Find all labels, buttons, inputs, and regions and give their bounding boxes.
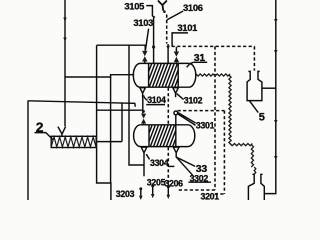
- svg-text:3205: 3205: [147, 177, 166, 187]
- svg-text:3203: 3203: [116, 189, 135, 199]
- svg-text:3304: 3304: [150, 158, 169, 168]
- svg-text:3206: 3206: [164, 178, 183, 188]
- svg-text:3105: 3105: [124, 1, 144, 12]
- svg-text:3201: 3201: [201, 192, 220, 200]
- svg-text:31: 31: [194, 52, 206, 64]
- svg-text:3302: 3302: [190, 173, 209, 183]
- svg-text:3102: 3102: [184, 96, 203, 106]
- svg-text:3301: 3301: [196, 120, 215, 130]
- svg-text:3101: 3101: [177, 22, 197, 33]
- svg-text:3103: 3103: [133, 17, 153, 28]
- svg-text:3104: 3104: [147, 95, 166, 105]
- svg-text:3106: 3106: [183, 2, 203, 13]
- svg-text:5: 5: [259, 112, 265, 124]
- svg-text:2: 2: [36, 119, 44, 135]
